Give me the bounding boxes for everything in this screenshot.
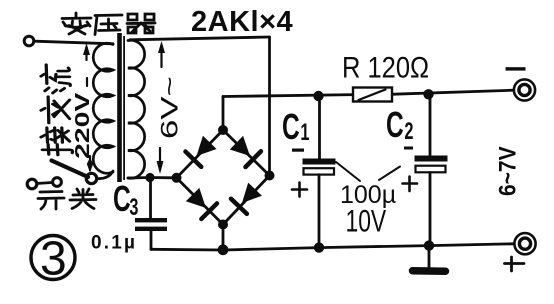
wire: bottom positive rail (151, 244, 514, 250)
switch S blade (52, 161, 89, 178)
wire: C3 bottom lead (150, 231, 153, 249)
svg-text:1: 1 (300, 119, 309, 146)
wire: primary bottom to switch pivot (97, 171, 113, 179)
wire: vertical drop to bridge right node (268, 37, 271, 175)
node: bridge top (218, 125, 228, 135)
wire: C3 top lead (149, 179, 152, 218)
wire: AC input to primary top (35, 41, 114, 44)
label C3 (113, 178, 138, 221)
svg-text:6V~: 6V~ (157, 76, 183, 139)
label 开关 (38, 189, 96, 209)
wire: C1 bottom lead (318, 175, 321, 248)
diode D4 bottom-right (231, 182, 263, 214)
node: C1 bottom junction (314, 242, 324, 252)
wire: bridge top node up (222, 97, 225, 129)
bridge edge top-left (177, 130, 224, 178)
annotation arrow: 6V bottom (159, 148, 161, 170)
wire: C1 top lead (318, 96, 321, 159)
bridge edge bottom-right (223, 176, 270, 225)
label: C2 minus (404, 147, 413, 150)
node: bridge left (172, 173, 182, 183)
leader line: 100u to C1 (336, 162, 360, 181)
label: output 1 dash (506, 67, 526, 70)
bridge edge bottom-left (177, 178, 224, 225)
wire: top rail secondary to bridge right drop (130, 37, 270, 40)
capacitor C1 negative plate (303, 159, 336, 165)
capacitor C2 positive plate (416, 166, 446, 173)
capacitor C3 plate top (135, 218, 167, 222)
annotation arrow: 220V bottom (89, 156, 91, 170)
wire: negative rail right segment (390, 90, 514, 94)
transformer core (117, 33, 122, 182)
svg-text:C: C (282, 106, 300, 147)
capacitor C2 negative plate (415, 156, 448, 162)
svg-text:2: 2 (404, 118, 413, 145)
node: C2 bottom junction (424, 240, 434, 250)
label C1 (282, 106, 309, 147)
wire: C2 bottom lead (429, 173, 432, 246)
label 变压器 (62, 13, 155, 35)
diode D2 top-right (229, 135, 261, 167)
svg-text:3: 3 (129, 194, 138, 221)
transformer T1 secondary winding (128, 40, 145, 178)
terminal: AC input top (24, 36, 34, 46)
label: C1 plus (292, 183, 307, 197)
svg-text:3: 3 (40, 233, 67, 286)
svg-text:220V: 220V (72, 92, 94, 159)
svg-text:C: C (113, 178, 131, 219)
annotation arrow: 220V top (85, 47, 88, 86)
label: circled 3 (31, 236, 75, 280)
svg-text:C: C (386, 104, 404, 145)
terminal: output 1 (top right) (514, 79, 535, 100)
switch S terminal (27, 179, 37, 189)
svg-text:2AKl×4: 2AKl×4 (191, 6, 293, 38)
capacitor C1 positive plate (304, 168, 335, 174)
switch S pivot (86, 173, 96, 183)
label 接交流 (rotated) (41, 65, 73, 155)
svg-text:R 120Ω: R 120Ω (342, 51, 429, 84)
svg-text:0.1µ: 0.1µ (91, 233, 137, 254)
capacitor C3 plate bottom (135, 227, 167, 231)
label C2 (386, 104, 413, 145)
bridge edge top-right (223, 130, 270, 176)
switch S fixed contact (53, 178, 62, 187)
node: secondary bottom junction (145, 173, 154, 182)
wire: secondary bottom to bridge left node (128, 176, 173, 179)
node: bridge bottom rail junction (218, 244, 229, 255)
node: bridge bottom (218, 220, 228, 230)
annotation arrow: 6V top (160, 45, 162, 67)
diode D3 bottom-left (185, 187, 217, 219)
wire: switch terminal to contact (37, 183, 52, 184)
wire: negative rail left segment (223, 95, 355, 97)
node: C2 top junction (423, 89, 433, 99)
node: bridge right (265, 171, 275, 181)
resistor R (353, 88, 392, 102)
label: C1 minus (292, 149, 304, 152)
label: output plus (505, 257, 525, 271)
diode D1 top-left (185, 135, 217, 167)
label: C2 plus (403, 177, 418, 192)
node: C1 top junction (313, 91, 323, 101)
transformer T1 primary winding (93, 43, 113, 173)
leader line: 100u to C2 (379, 167, 400, 181)
wire: C2 top lead (429, 94, 432, 155)
svg-text:10V: 10V (346, 203, 387, 238)
terminal: output + (bottom right) (514, 233, 535, 254)
wire: bridge bottom node down (222, 226, 225, 250)
ground (428, 246, 431, 268)
svg-text:6~7V: 6~7V (494, 146, 521, 196)
